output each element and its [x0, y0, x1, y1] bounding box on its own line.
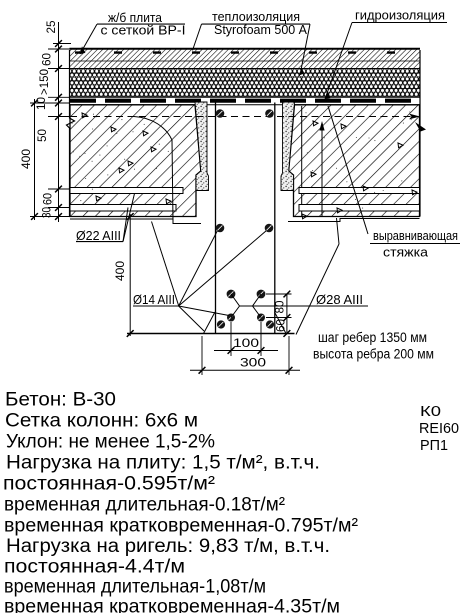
svg-text:25: 25	[44, 20, 58, 33]
svg-text:с сеткой ВР-I: с сеткой ВР-I	[101, 23, 186, 38]
svg-text:К0: К0	[420, 404, 441, 420]
svg-text:РП1: РП1	[420, 438, 448, 454]
svg-text:400: 400	[19, 149, 33, 169]
svg-text:шаг ребер 1350 мм: шаг ребер 1350 мм	[318, 330, 427, 345]
svg-text:10: 10	[34, 97, 48, 110]
svg-text:Styrofoam 500 А: Styrofoam 500 А	[214, 22, 307, 37]
svg-text:Нагрузка на ригель: 9,83 т/м,: Нагрузка на ригель: 9,83 т/м, в.т.ч.	[6, 536, 330, 557]
svg-text:50: 50	[35, 129, 49, 142]
svg-text:80: 80	[272, 300, 286, 313]
svg-text:100: 100	[233, 336, 259, 350]
svg-text:постоянная-4.4т/м: постоянная-4.4т/м	[4, 557, 185, 578]
svg-text:30: 30	[39, 207, 53, 218]
svg-text:Сетка колонн: 6х6 м: Сетка колонн: 6х6 м	[5, 411, 198, 432]
svg-text:Уклон: не менее 1,5-2%: Уклон: не менее 1,5-2%	[6, 432, 215, 453]
svg-text:60: 60	[39, 53, 53, 66]
svg-text:>150: >150	[37, 69, 51, 95]
svg-text:400: 400	[113, 261, 127, 281]
svg-text:временная кратковременная-0.79: временная кратковременная-0.795т/м²	[4, 516, 358, 537]
svg-text:Ø28 AIII: Ø28 AIII	[316, 292, 363, 307]
svg-text:постоянная-0.595т/м²: постоянная-0.595т/м²	[3, 474, 215, 495]
svg-text:60: 60	[40, 193, 54, 205]
svg-text:Нагрузка на плиту: 1,5 т/м², в: Нагрузка на плиту: 1,5 т/м², в.т.ч.	[6, 453, 320, 474]
svg-text:временная длительная-0.18т/м²: временная длительная-0.18т/м²	[4, 495, 285, 516]
svg-text:выравнивающая: выравнивающая	[373, 228, 458, 243]
svg-text:Ø22 AIII: Ø22 AIII	[76, 228, 121, 243]
svg-text:Бетон: В-30: Бетон: В-30	[5, 390, 116, 411]
svg-text:Ø14 AIII: Ø14 AIII	[133, 292, 175, 307]
svg-text:гидроизоляция: гидроизоляция	[355, 8, 445, 23]
svg-text:временная длительная-1,08т/м: временная длительная-1,08т/м	[4, 577, 266, 598]
svg-text:высота ребра 200 мм: высота ребра 200 мм	[313, 347, 434, 362]
svg-text:REI60: REI60	[419, 421, 459, 437]
svg-text:стяжка: стяжка	[383, 245, 429, 260]
svg-text:60: 60	[273, 319, 287, 332]
svg-text:300: 300	[240, 356, 266, 370]
svg-text:временная кратковременная-4.35: временная кратковременная-4.35т/м	[4, 597, 340, 613]
